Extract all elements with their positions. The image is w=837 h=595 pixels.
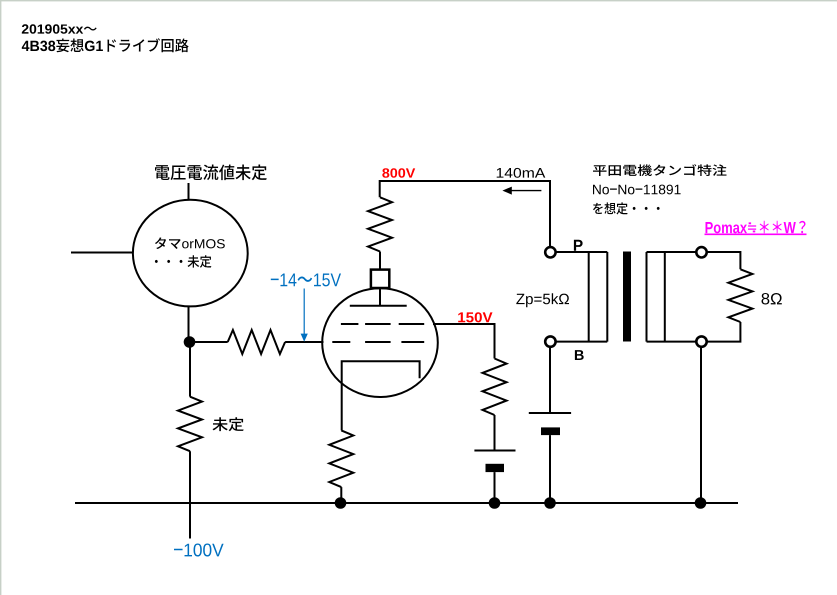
terminal secondary top (open circle) — [696, 247, 706, 257]
tube screen grid G2 dashes — [341, 323, 424, 325]
wire R3 to battery BT1 — [494, 415, 496, 451]
wire R4 to plate top-cap — [379, 252, 381, 270]
junction node cathode-ground — [335, 497, 347, 509]
junction node BT1-ground — [489, 497, 501, 509]
wire B terminal down to battery BT2 — [549, 347, 551, 413]
transformer T1 primary bottom lead — [556, 341, 608, 343]
label B (B+ terminal) — [575, 350, 584, 360]
battery BT2 short plate — [541, 427, 560, 435]
tube control grid G1 dashes — [332, 341, 424, 343]
wire tube G2 to 150V branch — [433, 324, 495, 359]
transformer note line2 No-No-11891 — [593, 185, 681, 195]
wire top-cap into tube — [379, 288, 381, 306]
label undetermined resistor — [213, 417, 244, 431]
label 150V — [458, 312, 492, 322]
resistor R2 grid leak (undetermined) — [178, 397, 202, 452]
transformer note line3 — [593, 202, 660, 214]
source circle U1 (tube or MOSFET, undetermined) — [133, 200, 248, 307]
transformer note line1 — [593, 164, 726, 176]
battery BT1 long plate — [474, 450, 515, 452]
wire top rail 800V to P terminal — [380, 181, 550, 247]
transformer T1 secondary bottom lead — [647, 341, 697, 343]
wire from node to grid resistor — [190, 341, 228, 343]
label 800V — [382, 168, 415, 178]
wire from node down to R2 — [189, 342, 191, 397]
wire from R2 down to -100V supply (crosses ground bus) — [189, 451, 191, 538]
wire load bottom to secondary — [706, 322, 740, 342]
title line 1 date 201905xx~ — [22, 24, 97, 33]
resistor R6 cathode — [329, 430, 353, 487]
battery BT2 long plate — [529, 412, 571, 414]
battery BT1 short plate — [486, 464, 505, 472]
title line 2 4B38 G1 drive circuit — [22, 38, 189, 52]
label 8 ohm — [762, 293, 782, 305]
resistor R3 screen dropper (150V) — [483, 359, 507, 416]
bias point arrow (blue) — [301, 289, 308, 342]
label -100V — [174, 543, 224, 556]
wire input lead left of source circle — [71, 252, 133, 254]
label Pomax = **W? — [705, 221, 805, 233]
source circle text line2 (... undetermined) — [155, 255, 211, 268]
current arrow 140mA (points left) — [502, 187, 541, 195]
wire BT2 to ground bus — [549, 435, 551, 503]
junction node secondary-ground — [695, 497, 707, 509]
terminal secondary bottom (open circle) — [696, 336, 706, 346]
transformer T1 primary winding box — [589, 252, 608, 342]
label P (plate terminal) — [574, 240, 583, 251]
wire secondary top to load — [706, 252, 740, 269]
bias label -14~15V — [271, 274, 341, 287]
resistor R1 grid series — [228, 330, 285, 354]
tube top-cap (plate cap) — [371, 270, 389, 288]
wire from source circle bottom to grid node — [188, 306, 190, 342]
wire secondary bottom to ground bus — [700, 347, 702, 504]
underline of Pomax label — [705, 233, 807, 235]
transformer T1 primary top lead — [556, 251, 608, 253]
resistor R5 load 8 ohm — [728, 269, 752, 322]
wire R6 to ground bus — [340, 487, 342, 503]
label 140mA — [497, 168, 546, 178]
transformer T1 secondary winding box — [647, 252, 665, 342]
wire stub from label to top of source circle — [188, 183, 190, 200]
tube cathode — [342, 361, 420, 430]
transformer T1 secondary top lead — [647, 251, 697, 253]
wire ground bus — [75, 502, 738, 504]
junction node BT2-ground — [544, 497, 556, 509]
label Zp=5k ohm — [516, 293, 569, 307]
terminal P (open circle) — [545, 247, 555, 257]
tube plate (anode) bar — [350, 305, 407, 307]
terminal B (open circle) — [545, 336, 555, 346]
transformer T1 core — [623, 252, 631, 342]
source circle text line1 (tama or MOS) — [155, 237, 225, 249]
junction node grid/source — [184, 336, 196, 348]
resistor R4 plate dropper (800V) — [368, 197, 392, 251]
wire from R1 to tube grid — [285, 341, 323, 343]
wire BT1 to ground bus — [494, 472, 496, 503]
tube V1 envelope — [322, 288, 438, 397]
label voltage/current undetermined — [155, 165, 267, 181]
